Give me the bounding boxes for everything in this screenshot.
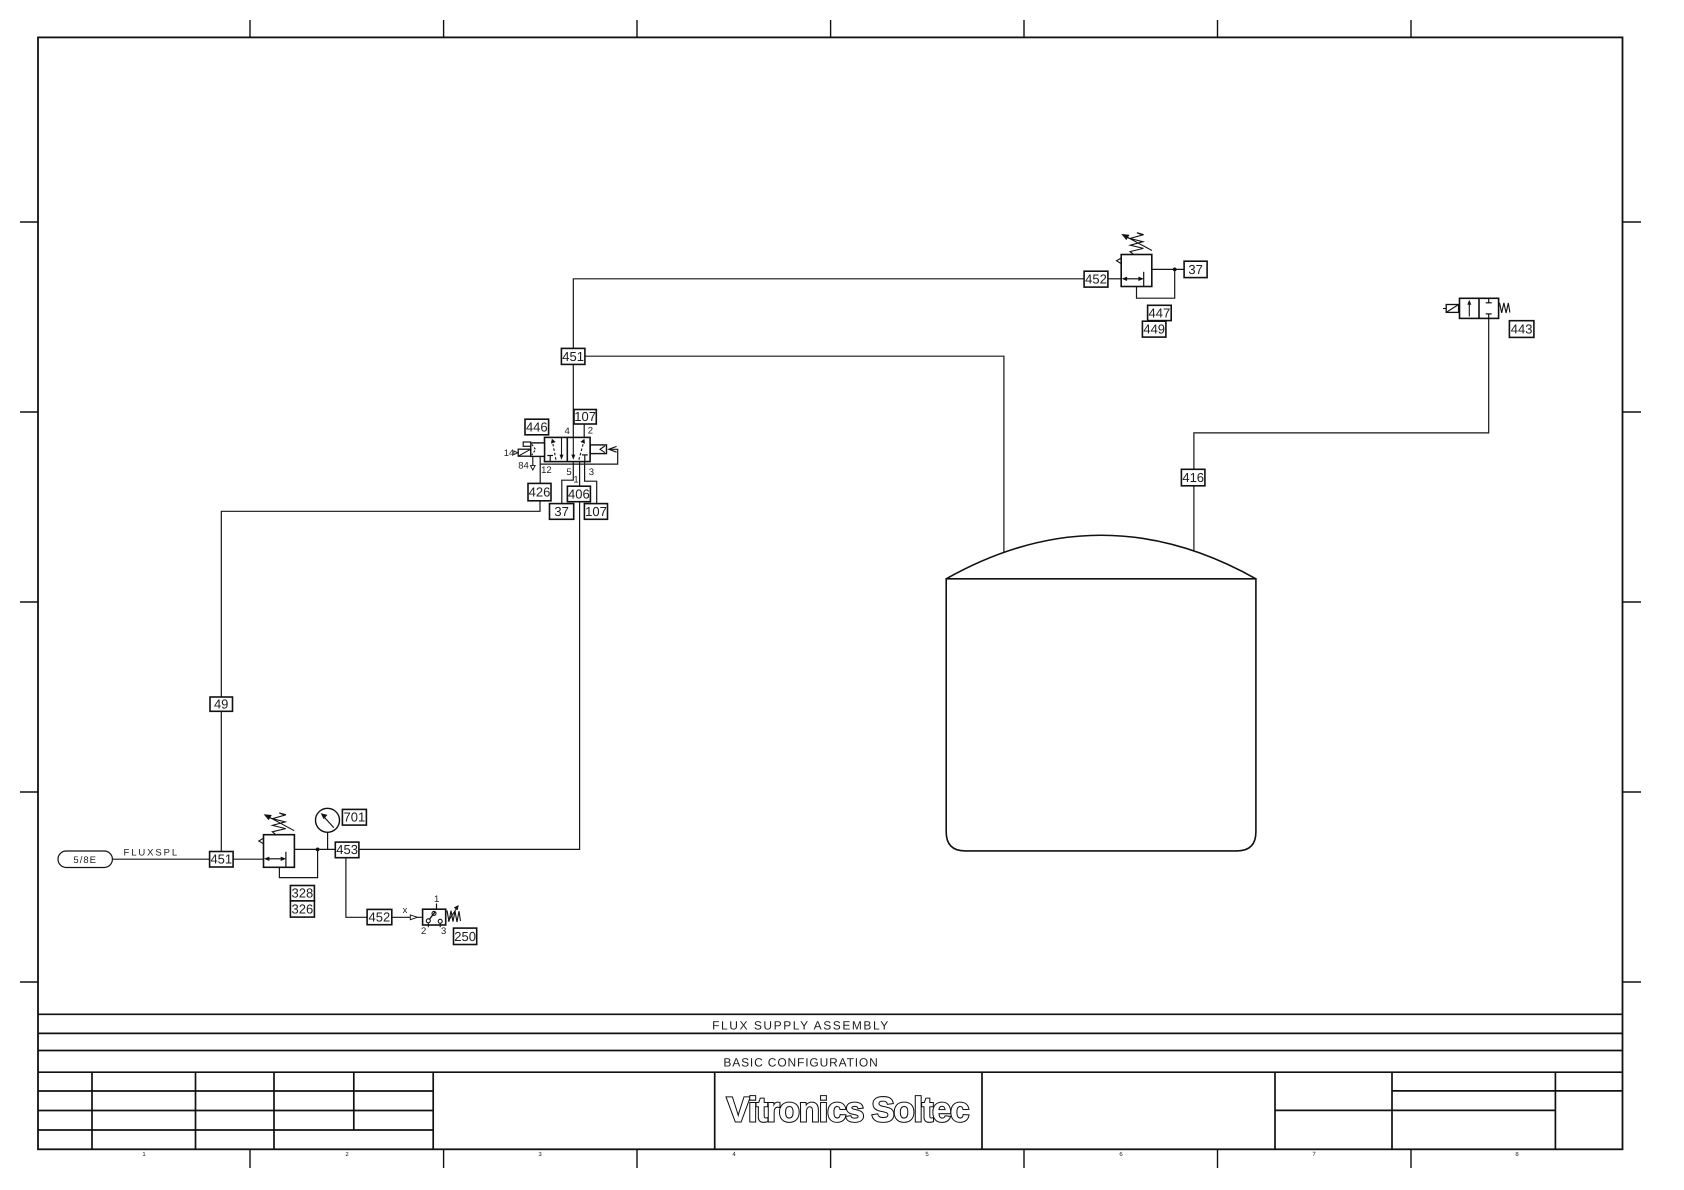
internal double arrow xyxy=(268,858,284,860)
svg-text:37: 37 xyxy=(554,504,568,519)
svg-text:5/8E: 5/8E xyxy=(73,855,97,866)
svg-text:5: 5 xyxy=(566,467,571,478)
return spring xyxy=(1500,303,1510,313)
svg-text:416: 416 xyxy=(1182,470,1204,485)
left pilot box xyxy=(531,443,545,457)
label 443 xyxy=(1509,321,1534,338)
pilot arrow x xyxy=(410,915,417,920)
REGULATOR 2 (top pressure regulator) xyxy=(1117,233,1152,287)
GAUGE 701 xyxy=(316,808,340,832)
svg-text:2: 2 xyxy=(588,426,593,437)
contacts xyxy=(426,919,430,923)
svg-text:453: 453 xyxy=(336,842,358,857)
junction dot regulator1 output xyxy=(316,848,320,852)
label 326 xyxy=(290,901,314,917)
wire node451 right to tank dip tube xyxy=(585,356,1004,553)
wire regulator2 feedback loop xyxy=(1137,269,1175,298)
svg-text:Vitronics Soltec: Vitronics Soltec xyxy=(727,1091,970,1130)
right pilot box xyxy=(590,445,606,454)
wire valve443 down left and into tank xyxy=(1194,318,1489,551)
external pilot arrow xyxy=(609,446,617,452)
label 451 left xyxy=(210,852,234,868)
left chamber down arrow xyxy=(561,437,563,455)
svg-text:49: 49 xyxy=(214,697,228,712)
wire port2 to 107 top xyxy=(583,424,585,437)
junction dot regulator2 output xyxy=(1173,268,1177,272)
label 416 xyxy=(1181,469,1205,486)
svg-text:1: 1 xyxy=(573,475,578,486)
label 426 xyxy=(528,483,551,500)
frame tick marks left xyxy=(20,222,38,982)
svg-text:1: 1 xyxy=(434,894,439,905)
label 406 xyxy=(567,486,590,502)
svg-text:4: 4 xyxy=(565,426,570,437)
wire supply from 5/8E to regulator 451 xyxy=(112,858,263,860)
wire regulator1 output to 453 and on to port1 riser xyxy=(294,502,579,850)
svg-text:443: 443 xyxy=(1511,322,1533,337)
svg-text:37: 37 xyxy=(1188,262,1202,277)
manual override stub xyxy=(523,442,531,446)
right chamber dashed arrow xyxy=(579,443,584,460)
frame tick marks top xyxy=(250,20,1411,37)
svg-text:107: 107 xyxy=(574,409,596,424)
svg-text:328: 328 xyxy=(292,886,314,901)
blocked T right chamber xyxy=(1486,302,1492,304)
svg-text:326: 326 xyxy=(292,902,314,917)
label 452 top xyxy=(1084,271,1108,287)
wire 453 down to 452 to pressure switch xyxy=(346,858,423,917)
svg-text:107: 107 xyxy=(585,504,607,519)
solenoid coil xyxy=(1446,305,1458,313)
svg-text:452: 452 xyxy=(369,909,391,924)
wire regulator2 output to 37 xyxy=(1152,268,1184,270)
wire port4 up through 451 to pressurize line and right to 452 xyxy=(573,279,1084,438)
svg-text:446: 446 xyxy=(526,419,548,434)
wire port12 valve down to 426 xyxy=(539,456,541,483)
label 449 xyxy=(1142,321,1166,337)
TANK vessel xyxy=(946,535,1256,851)
wire under valve pilot return xyxy=(540,449,618,464)
svg-text:FLUX SUPPLY ASSEMBLY: FLUX SUPPLY ASSEMBLY xyxy=(712,1018,890,1032)
wire port1 from valve to 406 xyxy=(579,462,581,487)
svg-text:2: 2 xyxy=(421,926,426,937)
svg-text:x: x xyxy=(403,905,408,916)
svg-text:14: 14 xyxy=(504,448,515,459)
left chamber dashed arrow xyxy=(553,443,556,460)
VALVE 446 5/2 directional valve xyxy=(514,437,617,470)
right chamber blocked T xyxy=(582,454,588,456)
svg-text:12: 12 xyxy=(541,465,552,476)
frame tick marks bottom xyxy=(250,1149,1411,1168)
svg-text:FLUXSPL: FLUXSPL xyxy=(124,848,180,859)
wire regulator1 feedback loop xyxy=(279,849,317,877)
wire port3 to 107 xyxy=(585,462,597,504)
label 328 xyxy=(290,886,314,901)
right chamber down arrow xyxy=(572,437,574,455)
label 37 below valve xyxy=(550,504,574,520)
svg-text:84: 84 xyxy=(518,461,529,472)
connector oval 5/8E xyxy=(58,851,112,868)
LABEL BOXES xyxy=(210,261,1534,944)
PORT NUMBER LABELS xyxy=(403,426,594,937)
label 453 xyxy=(335,842,359,858)
wire branch up from node 451 to line 49 xyxy=(221,501,540,852)
left chamber blocked T xyxy=(547,455,553,457)
svg-text:451: 451 xyxy=(562,349,584,364)
svg-text:406: 406 xyxy=(568,486,590,501)
wire port5 to 37 xyxy=(562,462,574,504)
wire 452 to regulator2 xyxy=(1108,278,1121,280)
svg-text:3: 3 xyxy=(589,467,594,478)
spring with adjust arrow xyxy=(272,813,286,834)
pilot port 14 arrow xyxy=(514,451,518,455)
svg-text:426: 426 xyxy=(529,485,551,500)
port stubs bottom xyxy=(427,923,429,927)
svg-text:701: 701 xyxy=(344,810,366,825)
zone numbers bottom xyxy=(142,1151,1519,1158)
spring with arrow xyxy=(447,911,461,923)
wire gauge stem xyxy=(327,832,329,849)
svg-text:250: 250 xyxy=(454,929,476,944)
label 701 xyxy=(342,809,366,825)
label 37 top xyxy=(1184,261,1207,277)
REGULATOR 1 (bottom-left pressure regulator) xyxy=(259,813,295,867)
port 1 stub xyxy=(436,904,438,910)
svg-text:BASIC CONFIGURATION: BASIC CONFIGURATION xyxy=(723,1055,878,1069)
label 250 xyxy=(454,928,477,944)
label 49 xyxy=(210,697,233,711)
svg-text:452: 452 xyxy=(1085,272,1107,287)
solenoid coil xyxy=(518,449,531,456)
label 451 top xyxy=(561,348,585,364)
flow arrow left chamber xyxy=(1468,304,1470,317)
label 446 xyxy=(525,419,549,435)
svg-text:451: 451 xyxy=(210,852,232,867)
label 452 bottom xyxy=(367,909,392,924)
VALVE 443 2/2 solenoid valve xyxy=(1443,298,1510,318)
exhaust 84 arrow xyxy=(532,456,534,465)
relief flag top-left xyxy=(259,838,264,844)
frame tick marks right xyxy=(1623,222,1642,982)
label 107 top xyxy=(574,410,596,425)
svg-text:447: 447 xyxy=(1149,305,1171,320)
label 107 below valve xyxy=(584,504,607,520)
svg-text:449: 449 xyxy=(1143,322,1165,337)
svg-text:3: 3 xyxy=(441,926,446,937)
TITLEBLOCK xyxy=(38,1014,1623,1149)
PRESSURE SWITCH 250 xyxy=(410,904,460,928)
label 447 xyxy=(1148,305,1172,320)
